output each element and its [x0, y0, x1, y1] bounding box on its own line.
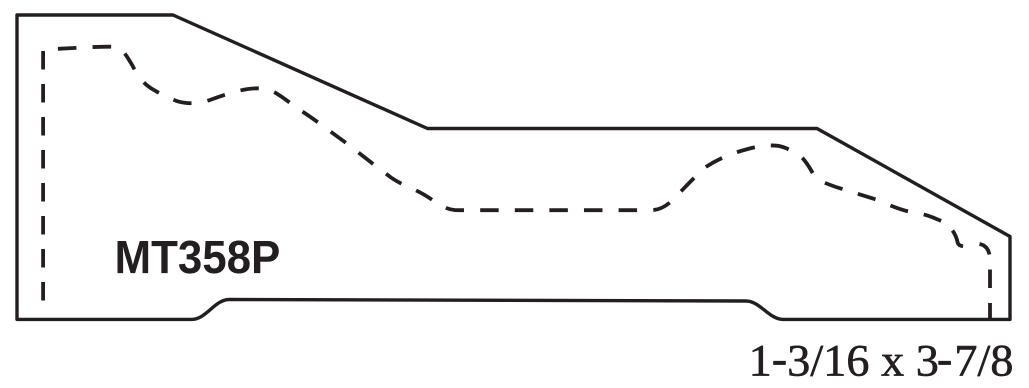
part number label MT358P — [118, 241, 279, 274]
solid outline of molding blank — [17, 15, 1010, 319]
dashed left edge of finished profile — [41, 51, 45, 313]
dashed molding profile curve — [44, 47, 943, 222]
dashed right edge with roundover — [980, 244, 991, 320]
size label 1-3/16 x 3-7/8 — [753, 346, 1012, 376]
profile hook dash near right edge — [953, 231, 964, 247]
